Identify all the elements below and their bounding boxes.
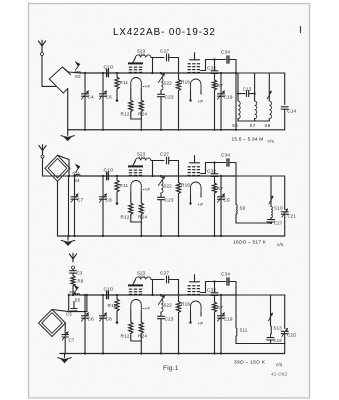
capacitor C21 (variable) [281,211,288,213]
antenna A2 [42,151,44,156]
svg-text:R24: R24 [138,215,147,220]
svg-text:S22: S22 [164,184,173,189]
svg-text:S3: S3 [75,74,81,79]
resistor R7 [212,183,216,193]
coil S23 [133,280,136,285]
svg-text:48O: 48O [139,53,146,57]
page mark I [300,27,302,33]
svg-text:Fig.1: Fig.1 [163,365,179,372]
tube V1 dome [131,300,142,312]
bottom bus wire [60,353,285,355]
wire [151,160,164,162]
coil S6 [237,73,239,101]
svg-text:S6: S6 [232,123,238,128]
wire [169,160,179,162]
svg-text:C27: C27 [160,48,169,53]
wire [152,280,154,296]
wire [201,292,206,294]
resistor R12 [130,89,132,100]
bottom bus wire [68,129,236,131]
svg-text:S1O: S1O [274,206,284,211]
svg-text:c/s: c/s [276,362,283,367]
wire to diamond top corner [52,310,69,312]
capacitor C23 [158,312,174,355]
svg-text:C8: C8 [106,198,113,203]
transformer coil block 2 [188,166,191,167]
svg-text:C7: C7 [69,337,75,342]
switch S4 [76,166,80,172]
wire ground drop [67,110,69,130]
wire [42,158,44,176]
capacitor C13 [238,93,245,95]
resistor R16 [176,302,190,355]
svg-text:C34: C34 [221,272,230,277]
resistor R12 [130,311,132,322]
resistor R11 [108,294,120,324]
svg-text:C6: C6 [106,95,113,100]
svg-text:R24: R24 [138,112,147,117]
coil S22 (variable) [158,72,172,90]
capacitor C5 [73,302,75,309]
resistor R16 [176,183,190,238]
svg-text:R16: R16 [181,183,190,188]
svg-text:C32: C32 [207,169,216,174]
capacitor C10 [104,286,114,298]
capacitor C4 [81,72,94,131]
loop antenna L3 diamond [39,310,66,337]
grid trimmer symbol [190,162,200,164]
svg-text:C32: C32 [207,288,216,293]
svg-text:C23: C23 [165,94,174,99]
svg-text:C1O: C1O [104,286,114,291]
coil S22 (variable) [158,294,172,312]
capacitor C27 [166,157,168,164]
svg-text:C23: C23 [165,197,174,202]
tube V2 dome [191,182,202,194]
svg-text:+F: +F [145,84,151,89]
capacitor C3 [72,269,74,270]
capacitor C34 [226,56,228,63]
svg-text:S11: S11 [240,328,248,333]
transformer coil block 2 [188,63,191,64]
antenna A3 [72,259,74,262]
svg-text:C27: C27 [160,151,169,156]
svg-text:C27: C27 [274,221,283,226]
svg-text:C1O: C1O [104,167,114,172]
wire diamond bottom to lower bus [57,181,59,236]
resistor R7 [212,80,216,90]
grid trimmer symbol [190,281,200,283]
capacitor C27 [166,54,168,61]
svg-text:+F: +F [145,306,151,311]
capacitor C6 [81,294,94,355]
transformer S23 coil block [128,165,143,167]
coil S8 (variable) [268,73,270,101]
svg-text:+F: +F [145,187,151,192]
svg-text:R7: R7 [217,83,224,88]
resistor R24 [140,311,142,322]
svg-text:41O: 41O [139,156,146,160]
svg-text:C19: C19 [274,338,283,343]
inner wire [236,222,271,224]
tuner box row2 [236,175,285,177]
resistor R24 [140,192,142,203]
capacitor C6 [99,72,112,131]
tube V2 dome [191,79,202,91]
capacitor C32 [214,163,216,174]
transformer coil block 2 [188,285,191,286]
svg-text:+F: +F [198,321,204,326]
coil S22 (variable) [158,175,172,193]
svg-text:C9: C9 [224,198,231,203]
capacitor C10 [104,64,114,76]
svg-text:R24: R24 [138,334,147,339]
wire loop below S5 [68,295,70,312]
coil S7 [254,73,256,101]
svg-text:41-O62: 41-O62 [271,372,288,377]
svg-text:S7: S7 [250,123,256,128]
svg-text:C23: C23 [165,316,174,321]
svg-text:LX422AB- 00-19-32: LX422AB- 00-19-32 [113,27,216,38]
svg-text:C19: C19 [224,317,233,322]
wire [41,56,43,87]
coil S11 [235,295,237,328]
wire [169,279,179,281]
switch S3 [62,67,68,72]
wire [131,118,142,120]
wire [151,279,164,281]
coil S10 (variable) [270,176,272,207]
capacitor C19 [217,72,232,131]
ground [67,130,69,136]
coil S23 [133,161,136,166]
svg-text:R7: R7 [217,186,224,191]
capacitor C10 [104,167,114,179]
svg-text:S5: S5 [75,298,81,303]
wire [131,221,142,223]
svg-text:c/s: c/s [268,139,275,144]
capacitor C27b [270,218,272,220]
capacitor C19 [217,294,232,355]
svg-text:R9: R9 [78,279,84,284]
transformer S23 coil block [128,284,143,286]
capacitor C34 [226,278,228,285]
antenna A1 [41,46,43,53]
resistor R7 [212,302,216,312]
wire bus [69,294,80,296]
resistor R11 [115,175,129,205]
svg-text:C3: C3 [77,270,83,275]
grid trimmer symbol [190,59,200,61]
svg-text:S22: S22 [164,81,173,86]
svg-text:S22: S22 [164,303,173,308]
svg-text:C4: C4 [88,95,95,100]
capacitor C20 (variable) [281,330,288,332]
coil S13 (variable) [270,295,272,326]
svg-text:C27: C27 [160,270,169,275]
capacitor C32 [214,282,216,293]
capacitor C14 [281,106,288,108]
capacitor C7b (variable) [64,323,66,334]
loop antenna L1 (open diamond) [49,67,70,79]
inner wire [238,120,269,122]
svg-text:15.6 – 5.94 M: 15.6 – 5.94 M [232,137,264,143]
capacitor C7 [71,175,84,237]
svg-text:C1O: C1O [104,64,114,69]
tube V1 dome [131,78,142,90]
inner wire [236,343,285,345]
wire [80,72,236,74]
wire vertical return [68,176,70,236]
resistor R16 [176,80,190,131]
svg-text:R12: R12 [121,112,130,117]
svg-text:S8: S8 [265,123,271,128]
svg-text:S9: S9 [240,206,246,211]
svg-text:+F: +F [198,202,204,207]
capacitor C8 [99,175,112,237]
wire [131,340,142,342]
svg-text:1O1: 1O1 [139,275,146,279]
svg-text:R12: R12 [121,215,130,220]
capacitor C8 [99,294,112,355]
svg-text:R11: R11 [108,303,117,308]
svg-text:R16: R16 [181,302,190,307]
ground [67,236,69,240]
wire [80,175,236,177]
svg-text:C6: C6 [88,317,95,322]
svg-text:C34: C34 [221,153,230,158]
wire [152,161,154,177]
transformer S23 coil block [128,62,143,64]
svg-text:16OO – 517 K: 16OO – 517 K [233,240,267,246]
resistor R24 [140,89,142,100]
bottom bus wire [58,235,285,237]
svg-text:C21: C21 [288,214,297,219]
resistor R9 [71,276,75,287]
tube V1 dome [131,181,142,192]
capacitor C32 [214,60,216,71]
svg-text:C14: C14 [287,109,296,114]
svg-text:R11: R11 [120,80,129,85]
svg-text:C2O: C2O [287,333,297,338]
svg-text:C34: C34 [221,50,230,55]
svg-text:+F: +F [198,99,204,104]
wire bracket [58,155,70,159]
resistor R11 [115,72,129,102]
svg-text:S13: S13 [274,326,283,331]
wire [169,57,179,59]
wire [80,294,236,296]
svg-text:C13: C13 [243,86,252,91]
svg-text:C32: C32 [207,66,216,71]
wire [67,89,69,110]
svg-text:R7: R7 [217,305,224,310]
svg-text:R16: R16 [181,80,190,85]
capacitor C34 [226,159,228,166]
capacitor C23 [158,193,174,237]
wire [152,58,154,74]
coil S9 [235,176,237,205]
svg-text:O16: O16 [73,172,80,176]
svg-text:c/s: c/s [277,242,284,247]
svg-text:R11: R11 [120,183,129,188]
coil S23 [133,58,136,63]
tube V2 dome [191,301,202,313]
svg-text:39O – 15O K: 39O – 15O K [234,360,266,366]
switch S5 [72,286,74,295]
svg-text:C7: C7 [77,198,84,203]
resistor R12 [130,192,132,203]
wire [151,57,164,59]
ground [64,354,66,358]
svg-text:C19: C19 [224,95,233,100]
tuner box row3 [236,294,285,296]
tuner box row1 [236,72,285,74]
svg-text:C8: C8 [106,317,113,322]
capacitor C23 [158,90,174,131]
wire [201,70,206,72]
wire [201,173,206,175]
loop antenna L2 diamond [45,155,70,181]
capacitor C9 [217,175,230,237]
capacitor C27 [166,276,168,283]
capacitor C19b [270,334,272,337]
svg-text:R12: R12 [121,334,130,339]
svg-text:C5: C5 [66,312,72,317]
